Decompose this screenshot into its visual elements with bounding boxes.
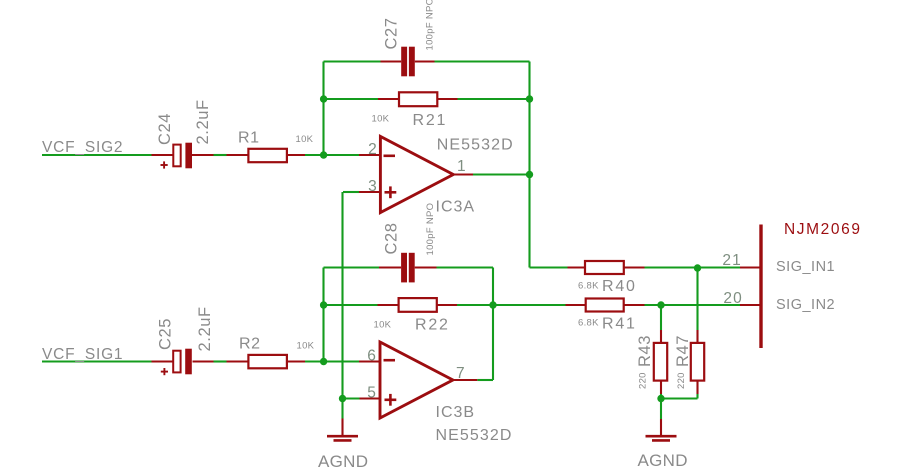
svg-text:R1: R1 <box>238 130 260 147</box>
svg-text:C25: C25 <box>156 318 174 350</box>
svg-text:21: 21 <box>722 252 742 269</box>
svg-text:20: 20 <box>723 290 743 307</box>
svg-text:6.8K: 6.8K <box>578 318 599 329</box>
svg-text:1: 1 <box>457 158 466 175</box>
svg-text:VCF_SIG2: VCF_SIG2 <box>42 139 123 156</box>
svg-text:3: 3 <box>368 178 377 195</box>
svg-text:AGND: AGND <box>638 451 688 470</box>
svg-text:R21: R21 <box>413 112 448 129</box>
svg-text:IC3A: IC3A <box>436 199 476 216</box>
svg-text:2: 2 <box>368 141 377 158</box>
svg-text:10K: 10K <box>372 114 390 125</box>
svg-text:AGND: AGND <box>318 452 368 471</box>
svg-text:220: 220 <box>676 372 687 389</box>
svg-text:C24: C24 <box>156 113 174 145</box>
svg-text:7: 7 <box>456 365 465 382</box>
svg-text:R47: R47 <box>674 335 692 367</box>
svg-text:2.2uF: 2.2uF <box>194 99 212 144</box>
svg-text:100pF NPO: 100pF NPO <box>424 0 435 51</box>
svg-text:220: 220 <box>638 372 649 389</box>
svg-text:NJM2069: NJM2069 <box>784 221 862 238</box>
svg-text:R2: R2 <box>239 336 261 353</box>
svg-text:VCF_SIG1: VCF_SIG1 <box>42 346 123 363</box>
svg-text:SIG_IN1: SIG_IN1 <box>776 259 835 275</box>
svg-text:6.8K: 6.8K <box>578 281 599 292</box>
svg-text:100pF NPO: 100pF NPO <box>425 203 436 256</box>
svg-text:SIG_IN2: SIG_IN2 <box>776 297 835 313</box>
svg-text:NE5532D: NE5532D <box>436 427 513 444</box>
svg-text:6: 6 <box>367 348 376 365</box>
svg-text:2.2uF: 2.2uF <box>196 306 214 351</box>
svg-text:IC3B: IC3B <box>436 404 476 421</box>
svg-text:C28: C28 <box>383 222 401 254</box>
svg-text:C27: C27 <box>383 17 401 49</box>
svg-text:10K: 10K <box>296 134 314 145</box>
svg-text:10K: 10K <box>297 341 315 352</box>
svg-text:R43: R43 <box>636 335 654 367</box>
svg-text:R40: R40 <box>602 278 637 295</box>
svg-text:NE5532D: NE5532D <box>437 137 514 154</box>
svg-text:R22: R22 <box>415 317 450 334</box>
svg-text:R41: R41 <box>602 316 637 333</box>
svg-text:5: 5 <box>367 385 376 402</box>
svg-text:10K: 10K <box>374 320 392 331</box>
